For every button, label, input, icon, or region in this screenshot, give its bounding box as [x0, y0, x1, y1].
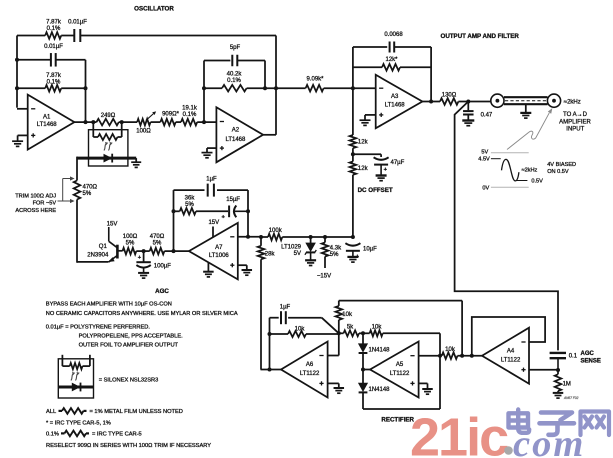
wire Q1 emitter run — [0, 0, 1, 1]
junction rail3 right — [84, 86, 88, 90]
label 1uF A6 — [280, 305, 291, 311]
A7 plus sign — [230, 263, 234, 267]
A4 plus sign — [521, 368, 525, 372]
diode D2 1N4148 — [359, 370, 368, 410]
label 47uF — [391, 160, 405, 166]
capacitor 0.47 — [463, 102, 474, 120]
title OSCILLATOR — [134, 6, 174, 13]
resistor 19.1k — [181, 119, 197, 126]
resistor 4.3k — [322, 237, 329, 268]
note resistor glyph1 — [59, 408, 87, 414]
junction zener node — [309, 235, 313, 239]
note line2 — [46, 311, 238, 317]
svg-text:≈2kHz: ≈2kHz — [564, 100, 581, 106]
svg-text:NO CERAMIC CAPACITORS ANYWHERE: NO CERAMIC CAPACITORS ANYWHERE. USE MYLA… — [46, 311, 238, 317]
A2 minus sign — [220, 121, 224, 123]
note IRC2 — [92, 432, 142, 438]
svg-text:9.09k*: 9.09k* — [306, 77, 324, 83]
resistor 7.87k top — [45, 32, 61, 39]
label 5V — [481, 150, 488, 156]
line 0V level — [491, 186, 529, 188]
label 7.87k rail3 — [46, 73, 62, 86]
svg-text:A1: A1 — [43, 115, 51, 121]
wire 5pF right vertical — [264, 61, 266, 89]
svg-text:INPUT: INPUT — [566, 127, 584, 133]
wire 0.0068 rail left — [353, 46, 387, 48]
resistor 10k A6 vertical — [336, 301, 343, 334]
junction 4.3k node — [323, 235, 327, 239]
junction 100k left — [259, 235, 263, 239]
svg-text:36k: 36k — [185, 195, 196, 201]
wire A5 to 10k — [440, 355, 442, 357]
wire pot link — [151, 121, 161, 123]
svg-text:2N3904: 2N3904 — [87, 252, 109, 258]
label 5pF — [230, 45, 241, 51]
wire 5k link — [339, 332, 344, 334]
resistor 100R pot — [137, 119, 150, 126]
svg-text:1N4148: 1N4148 — [369, 348, 391, 354]
junction A6 fb — [268, 368, 272, 372]
label 5k — [347, 325, 354, 331]
junction A2 minus node — [202, 120, 206, 124]
label 15V Q1 — [107, 222, 118, 228]
note silonex — [99, 377, 159, 383]
wire A1 output — [74, 121, 96, 123]
resistor 7.87k rail3 — [45, 85, 61, 92]
label 4V BIASED — [547, 162, 576, 175]
svg-text:5pF: 5pF — [230, 45, 241, 51]
callout squiggle arrow — [507, 108, 552, 150]
wire 909R to 19.1k — [176, 121, 181, 123]
resistor 12k* fb — [382, 64, 400, 71]
svg-text:AGC: AGC — [155, 288, 169, 295]
opto LED diode — [104, 154, 113, 163]
resistor 10k A6fb — [270, 331, 339, 337]
resistor 28k — [258, 246, 265, 259]
svg-text:= 1% METAL FILM UNLESS NOTED: = 1% METAL FILM UNLESS NOTED — [90, 409, 183, 415]
svg-text:A7: A7 — [215, 245, 223, 251]
wire A3 plus stub — [365, 115, 376, 120]
svg-text:A4: A4 — [507, 348, 515, 354]
wire 1uF diagonal — [322, 318, 339, 334]
label 10k rect — [372, 325, 383, 331]
junction A2out-col — [274, 86, 278, 90]
op-amp A5 — [370, 342, 419, 398]
wire A2 out vertical — [275, 36, 277, 135]
line 5V level — [491, 152, 529, 154]
svg-text:0.47: 0.47 — [481, 112, 493, 118]
note opto resistor — [62, 355, 90, 370]
junction 12k mid — [351, 152, 355, 156]
resistor 10k A4 — [442, 352, 458, 359]
label AGC — [155, 288, 169, 295]
resistor 130R — [440, 98, 458, 105]
wire 1uF A6 rail — [270, 317, 322, 319]
wire 40.2k rail left — [204, 87, 222, 89]
svg-text:OUTPUT AMP AND FILTER: OUTPUT AMP AND FILTER — [441, 33, 520, 40]
label 15uF plus — [222, 215, 226, 221]
ground opto LED — [131, 158, 141, 167]
junction A3 out — [466, 100, 470, 104]
junction A6 input node — [337, 331, 341, 335]
svg-text:0.1%: 0.1% — [227, 78, 241, 84]
svg-text:SENSE: SENSE — [581, 358, 601, 364]
op-amp A4 — [482, 328, 529, 384]
label 36k — [185, 195, 196, 208]
svg-text:5V: 5V — [294, 251, 301, 257]
label 0.1 — [569, 353, 578, 359]
capacitor 1uF A7 — [208, 184, 214, 197]
resistor 12k lower — [350, 162, 357, 175]
coax body — [504, 97, 548, 104]
wire top rail segment left — [17, 35, 45, 37]
svg-text:AN67 F02: AN67 F02 — [563, 396, 579, 400]
A4 minus sign — [521, 341, 525, 343]
label 1M — [563, 381, 571, 387]
svg-text:LT1468: LT1468 — [225, 137, 246, 143]
label 0V — [482, 185, 489, 191]
resistor 1M — [555, 370, 562, 392]
op-amp A1 — [28, 95, 75, 150]
label A2 — [225, 128, 246, 143]
wire 1uF rail — [174, 189, 249, 191]
capacitor 0.0068 — [390, 42, 395, 53]
resistor 9.09k — [306, 85, 324, 92]
wire 5pF rail right — [237, 60, 265, 62]
wire A2 output — [263, 134, 276, 136]
junction A7 minus — [246, 235, 250, 239]
ground 1M — [553, 393, 564, 398]
wire A7 minus stub — [238, 236, 261, 238]
wire A5 plus stub — [419, 383, 428, 388]
label 47uF plus — [384, 167, 388, 173]
resistor 100R agc — [123, 248, 137, 255]
wire 36k to 15uF — [196, 210, 228, 212]
wire 12k mid — [352, 148, 354, 161]
svg-text:100Ω: 100Ω — [136, 128, 151, 134]
label DC OFFSET — [358, 187, 393, 194]
svg-text:21ic: 21ic — [410, 408, 508, 458]
coax left connector — [491, 94, 504, 107]
label 100R agc — [123, 234, 138, 247]
junction A3 minus node — [351, 86, 355, 90]
resistor 10k rect — [370, 330, 383, 336]
svg-text:0.01µF: 0.01µF — [68, 20, 87, 26]
label 100R — [136, 128, 151, 134]
wire A4 plus stub — [529, 369, 558, 371]
watermark 21ic — [410, 408, 508, 458]
junction A7 minus rail — [246, 209, 250, 213]
svg-text:7.87k: 7.87k — [46, 73, 62, 79]
wire 249R right — [119, 121, 137, 123]
resistor 909R — [160, 119, 175, 126]
wire A3 fb right vertical — [430, 47, 432, 102]
label sine 2kHz — [522, 168, 538, 174]
svg-text:LT1029: LT1029 — [281, 244, 302, 250]
label 470R — [83, 184, 98, 197]
label -15V — [317, 274, 331, 280]
label 0.5V — [531, 179, 543, 185]
label A1 — [37, 115, 58, 129]
zener LT1029 — [305, 237, 316, 260]
wire A1 feedback left vertical — [16, 36, 18, 108]
svg-text:A2: A2 — [232, 128, 240, 134]
svg-text:5%: 5% — [330, 252, 339, 258]
wire A2out to 9.09k — [276, 87, 306, 89]
wire rail2 left — [17, 59, 51, 61]
wire A7 minus vertical — [247, 190, 249, 237]
svg-text:A5: A5 — [396, 362, 404, 368]
note opto LED — [58, 383, 93, 392]
note line1 — [46, 302, 172, 308]
svg-text:A3: A3 — [391, 94, 399, 100]
ground 10uF — [347, 257, 358, 262]
wire A4 fb — [472, 317, 545, 356]
svg-text:0.01µF = POLYSTYRENE PERFERRE: 0.01µF = POLYSTYRENE PERFERRED. — [46, 324, 151, 330]
label A4 — [501, 348, 521, 363]
junction 100uF node — [142, 249, 146, 253]
label fig number — [563, 396, 579, 400]
label 4.3k — [330, 246, 342, 259]
A1 plus sign — [31, 133, 35, 137]
svg-text:0.1%: 0.1% — [47, 80, 61, 86]
wire A2 plus stub — [207, 148, 216, 152]
svg-text:RESELECT 909Ω IN SERIES WITH 1: RESELECT 909Ω IN SERIES WITH 100Ω TRIM I… — [46, 443, 211, 449]
ground A3 plus — [360, 120, 371, 125]
svg-text:130Ω: 130Ω — [442, 93, 457, 99]
ground A5 plus — [422, 389, 433, 394]
wire rect rail right — [383, 332, 440, 334]
line 0.5V tick — [516, 180, 527, 182]
svg-text:OUTER FOIL TO AMPLIFIER OUTPUT: OUTER FOIL TO AMPLIFIER OUTPUT — [79, 343, 179, 349]
wire 19.1k to A2 — [197, 121, 216, 123]
svg-text:LT1468: LT1468 — [385, 102, 406, 108]
opto stub left — [92, 122, 94, 137]
diode D1 1N4148 — [359, 333, 368, 369]
capacitor 0.01uF top — [74, 29, 80, 42]
svg-text:POLYPROPELENE, PPS ACCEPTABLE.: POLYPROPELENE, PPS ACCEPTABLE. — [79, 334, 184, 340]
svg-text:0.1%: 0.1% — [183, 112, 197, 118]
note opto light arrows — [71, 372, 80, 381]
svg-text:≈2kHz: ≈2kHz — [522, 168, 538, 174]
wire 470R to node — [136, 250, 149, 252]
op-amp A2 — [216, 107, 263, 162]
svg-text:12k: 12k — [358, 140, 369, 146]
svg-text:15µF: 15µF — [226, 197, 240, 203]
label 249R — [101, 113, 116, 119]
svg-text:0.1%: 0.1% — [47, 26, 61, 32]
wire 40.2k rail right — [247, 87, 276, 89]
label TO A-D — [559, 112, 591, 132]
label 0.47 — [481, 112, 493, 118]
ground 100uF — [138, 273, 149, 278]
label 40.2k — [227, 71, 243, 84]
label 10k A4 — [445, 347, 456, 353]
wire 0.0068 rail right — [394, 46, 431, 48]
wire 28k vertical — [260, 237, 262, 370]
junction direct tap — [460, 354, 464, 358]
label 10k A6 vertical — [342, 312, 353, 318]
wire rail3 right — [61, 87, 85, 89]
svg-text:15V: 15V — [208, 220, 219, 226]
svg-text:Q1: Q1 — [99, 244, 108, 250]
svg-text:ACROSS HERE: ACROSS HERE — [15, 208, 56, 214]
svg-text:TRIM 100Ω ADJ: TRIM 100Ω ADJ — [15, 193, 56, 199]
capacitor 1uF A6 — [281, 311, 286, 324]
label 4.5V — [478, 157, 490, 163]
svg-text:470Ω: 470Ω — [150, 234, 165, 240]
wire 10k to A4 — [458, 355, 483, 357]
svg-text:10k: 10k — [372, 325, 383, 331]
wire A7 Vminus stub — [207, 262, 209, 271]
wire Q1 base — [117, 250, 122, 252]
capacitor 5pF — [232, 55, 237, 67]
svg-text:100k: 100k — [269, 228, 283, 234]
svg-text:100Ω: 100Ω — [123, 234, 138, 240]
wire A2 fb left vertical — [203, 61, 205, 123]
note line3 — [46, 324, 151, 330]
label 0.01uF top — [68, 20, 87, 26]
opto box — [89, 130, 128, 166]
opto LED wire — [77, 157, 136, 160]
svg-text:0.5V: 0.5V — [531, 179, 543, 185]
wire 47uF stub — [353, 154, 381, 157]
wire 12k* rail left — [353, 66, 382, 68]
svg-text:1µF: 1µF — [280, 305, 291, 311]
label TRIM text — [15, 193, 56, 214]
wire rail2 right — [56, 59, 86, 61]
ground A6 plus — [334, 388, 345, 393]
A1 minus sign — [31, 108, 35, 110]
wire rect bottom rail — [363, 333, 440, 409]
junction A7 fb out — [172, 249, 176, 253]
label 100uF plus — [138, 255, 142, 261]
svg-text:5V: 5V — [481, 150, 488, 156]
capacitor 10uF — [345, 243, 360, 256]
label 15V A7 — [208, 220, 219, 226]
waveform sine — [502, 159, 519, 181]
wire A6 minus drop — [328, 333, 339, 355]
note ALL — [46, 409, 56, 415]
label 7.87k top — [46, 20, 62, 33]
wire top rail right — [80, 35, 276, 37]
wire A1 minus stub — [17, 108, 28, 110]
label D1 — [369, 348, 391, 354]
capacitor 100uF — [136, 251, 150, 272]
svg-text:10k: 10k — [342, 312, 353, 318]
wire LED left drop — [76, 157, 78, 181]
svg-text:7.87k: 7.87k — [46, 20, 62, 26]
label 15uF — [226, 197, 240, 203]
wire A5 minus stub — [419, 355, 440, 357]
wire AGC diagonal — [455, 102, 558, 351]
svg-text:0.1%: 0.1% — [46, 432, 59, 438]
capacitor 0.1 — [550, 353, 566, 370]
svg-text:249Ω: 249Ω — [101, 113, 116, 119]
svg-text:5%: 5% — [185, 202, 194, 208]
wire A6 out — [261, 369, 282, 371]
label Q1 — [87, 244, 109, 259]
resistor 36k — [180, 208, 196, 215]
svg-text:0.0068: 0.0068 — [384, 32, 403, 38]
ground LT1029 — [305, 260, 316, 265]
note IRC1 — [46, 420, 111, 426]
ground 0.47 — [462, 121, 474, 126]
label 100uF — [154, 264, 171, 270]
label 1uF A7 — [206, 176, 217, 182]
svg-text:10µF: 10µF — [363, 246, 377, 252]
label 130R — [442, 93, 457, 99]
svg-text:12k*: 12k* — [385, 57, 398, 63]
svg-text:10k: 10k — [445, 347, 456, 353]
svg-text:4.5V: 4.5V — [478, 157, 490, 163]
svg-text:4.3k: 4.3k — [330, 246, 342, 252]
ground A2 plus — [202, 153, 213, 158]
svg-text:0V: 0V — [482, 185, 489, 191]
watermark com — [513, 423, 585, 458]
arrow 100R pot — [146, 111, 156, 120]
label 909R — [162, 111, 179, 117]
svg-text:28k: 28k — [265, 252, 276, 258]
ground A1 plus — [12, 141, 23, 146]
svg-text:5%: 5% — [126, 241, 135, 247]
note reselect — [46, 443, 211, 449]
svg-text:5%: 5% — [83, 191, 92, 197]
note opto box — [58, 359, 93, 398]
capacitor 47uF — [374, 157, 389, 175]
svg-text:−15V: −15V — [317, 274, 331, 280]
svg-text:LT1468: LT1468 — [37, 122, 58, 128]
A3 minus sign — [379, 87, 383, 89]
ground 47uF — [376, 176, 387, 181]
label 10uF plus — [356, 254, 360, 260]
resistor 100k — [268, 234, 282, 241]
junction A6 fb mid — [268, 332, 272, 336]
svg-text:ALL: ALL — [46, 409, 56, 415]
label 12k lower — [358, 166, 369, 172]
svg-text:= SILONEX NSL32SR3: = SILONEX NSL32SR3 — [99, 377, 159, 383]
label 28k — [265, 252, 276, 258]
junction A1 out a — [84, 120, 88, 124]
label A5 — [390, 362, 410, 377]
wire A6 fb vertical — [269, 318, 271, 370]
opto light arrows — [104, 142, 113, 151]
wire 9.09k to A3 — [324, 87, 376, 89]
capacitor 15uF — [229, 206, 248, 218]
trim bracket — [58, 176, 75, 203]
A3 plus sign — [379, 113, 383, 117]
label LT1029 — [281, 244, 302, 256]
capacitor 0.01uF rail2 — [51, 53, 56, 67]
junction A5 out node — [361, 368, 365, 372]
svg-text:= IRC TYPE CAR-5: = IRC TYPE CAR-5 — [92, 432, 142, 438]
op-amp A3 — [376, 75, 423, 129]
junction A7 fb a — [172, 209, 176, 213]
A5 plus sign — [410, 381, 414, 385]
svg-text:909Ω*: 909Ω* — [162, 111, 179, 117]
svg-text:5%: 5% — [153, 241, 162, 247]
wire 36k rail left — [174, 210, 180, 212]
A6 minus sign — [319, 355, 323, 357]
resistor 470R trim — [74, 181, 81, 200]
op-amp A6 — [281, 342, 328, 398]
A5 minus sign — [410, 355, 414, 357]
note line4 — [79, 334, 184, 340]
svg-text:100µF: 100µF — [154, 264, 171, 270]
wire mini vertical — [85, 60, 87, 122]
svg-text:4V BIASED: 4V BIASED — [547, 162, 576, 168]
svg-text:OSCILLATOR: OSCILLATOR — [134, 6, 174, 13]
